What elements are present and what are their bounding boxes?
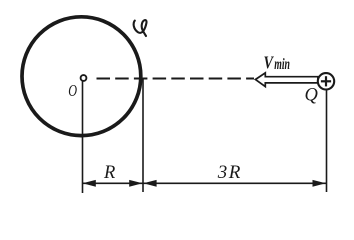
- extension line below circle edge: [142, 79, 144, 192]
- hollow velocity arrow v_min: [255, 73, 318, 87]
- svg-text:Q: Q: [305, 86, 319, 106]
- dimension line 3R with arrowheads: [143, 182, 327, 184]
- dashed line from O toward charge: [97, 78, 255, 80]
- svg-text:R: R: [103, 163, 115, 183]
- extension line below O: [82, 82, 84, 194]
- center point O (small open dot): [81, 75, 87, 81]
- dimension line R with arrowheads: [83, 182, 144, 184]
- svg-text:3R: 3R: [217, 162, 242, 183]
- extension line below charge: [326, 90, 328, 192]
- charge Q (circle with plus sign): [318, 73, 334, 89]
- svg-text:V: V: [264, 52, 275, 72]
- sphere (large circle): [22, 17, 141, 136]
- svg-text:O: O: [68, 81, 77, 100]
- label phi (hand-drawn script phi): [134, 20, 147, 36]
- svg-text:min: min: [274, 56, 290, 73]
